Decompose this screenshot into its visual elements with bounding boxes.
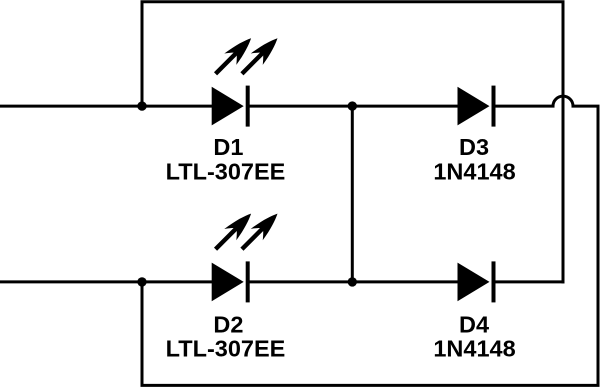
wire: middle vertical (joins upper and lower rails) [351, 106, 354, 282]
svg-text:1N4148: 1N4148 [433, 158, 515, 184]
wire: lower-left vertical (lower-left junction down to bottom bus) [141, 282, 144, 386]
svg-text:LTL-307EE: LTL-307EE [166, 158, 286, 184]
junction dot: lower-left node [137, 277, 146, 286]
wire: upper rail middle segment (D1 cathode to D3 anode) [249, 105, 458, 108]
junction dot: middle node on upper rail [348, 101, 357, 110]
svg-text:D1: D1 [213, 134, 243, 160]
diode D4 symbol [458, 261, 496, 302]
svg-text:D3: D3 [459, 134, 489, 160]
svg-text:D2: D2 [213, 311, 243, 337]
diode D3 symbol [458, 86, 496, 127]
light arrows of LED D1 [210, 32, 284, 79]
junction dot: upper-left node [137, 101, 146, 110]
wire: lower rail middle segment (D2 cathode to D4 anode) [249, 280, 458, 283]
wire: lower rail right segment (D4 cathode to right vertical corner) [495, 280, 565, 283]
light arrows of LED D2 [210, 208, 284, 255]
svg-text:1N4148: 1N4148 [433, 335, 515, 361]
wire: top bus run (upper-left junction up, across top, down right side to lower rail) [142, 2, 563, 284]
junction dot: middle node on lower rail [348, 277, 357, 286]
LED D1 symbol [212, 86, 250, 127]
svg-text:LTL-307EE: LTL-307EE [166, 335, 286, 361]
svg-text:D4: D4 [459, 311, 489, 337]
wire: lower rail left segment (left edge to D2 anode) [0, 280, 212, 283]
LED D2 symbol [212, 261, 250, 302]
wire: upper rail right segment with hop over vertical, right edge vertical, bottom bus [141, 96, 599, 385]
wire: upper rail left segment (left edge to D1 anode) [0, 105, 212, 108]
